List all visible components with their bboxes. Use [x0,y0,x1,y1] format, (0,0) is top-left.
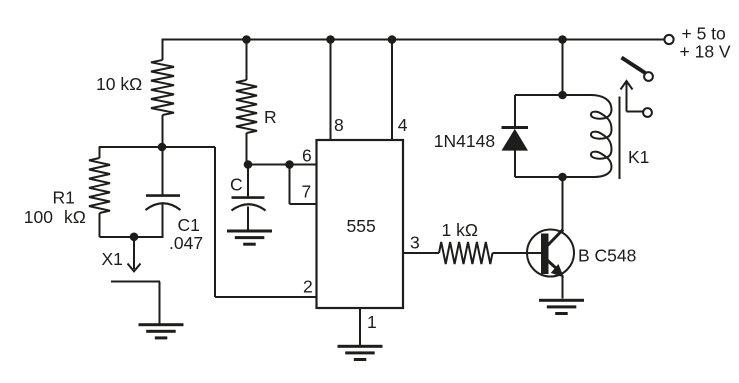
svg-text:R: R [264,107,277,127]
svg-text:.047: .047 [169,233,203,253]
svg-text:100: 100 [24,207,53,227]
svg-text:4: 4 [398,115,408,135]
svg-text:kΩ: kΩ [64,207,86,227]
svg-text:3: 3 [410,233,420,253]
svg-text:1 kΩ: 1 kΩ [442,220,478,240]
svg-text:K1: K1 [628,147,649,167]
svg-text:1N4148: 1N4148 [434,131,495,151]
svg-text:10 kΩ: 10 kΩ [96,74,142,94]
svg-text:C1: C1 [178,215,200,235]
svg-text:+ 18 V: + 18 V [680,42,731,62]
svg-text:555: 555 [347,216,376,236]
svg-text:7: 7 [302,182,312,202]
svg-text:2: 2 [303,277,313,297]
svg-text:1: 1 [367,312,377,332]
svg-text:R1: R1 [53,188,75,208]
svg-text:C: C [230,175,243,195]
svg-text:B C548: B C548 [578,246,636,266]
svg-text:+ 5 to: + 5 to [682,24,726,44]
svg-text:8: 8 [334,115,344,135]
svg-text:X1: X1 [102,249,123,269]
svg-text:6: 6 [302,146,312,166]
